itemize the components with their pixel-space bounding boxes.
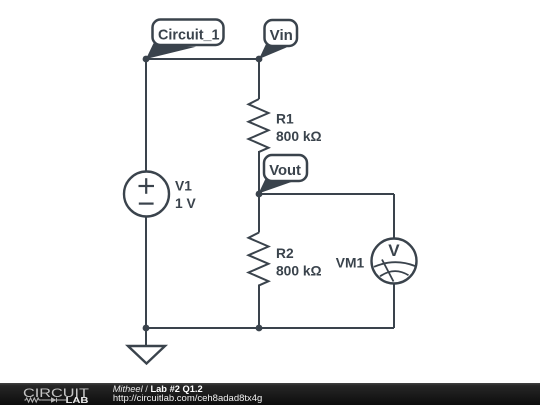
svg-text:Vout: Vout — [269, 162, 301, 179]
svg-text:800 kΩ: 800 kΩ — [276, 129, 322, 144]
svg-text:V: V — [388, 241, 400, 260]
svg-text:R2: R2 — [276, 246, 294, 261]
svg-text:V1: V1 — [175, 179, 192, 194]
svg-text:Vin: Vin — [270, 27, 293, 44]
svg-text:1 V: 1 V — [175, 196, 197, 211]
svg-text:VM1: VM1 — [336, 256, 365, 271]
svg-text:LAB: LAB — [66, 396, 90, 405]
svg-text:Circuit_1: Circuit_1 — [158, 27, 220, 44]
svg-text:R1: R1 — [276, 112, 294, 127]
svg-text:800 kΩ: 800 kΩ — [276, 264, 322, 279]
